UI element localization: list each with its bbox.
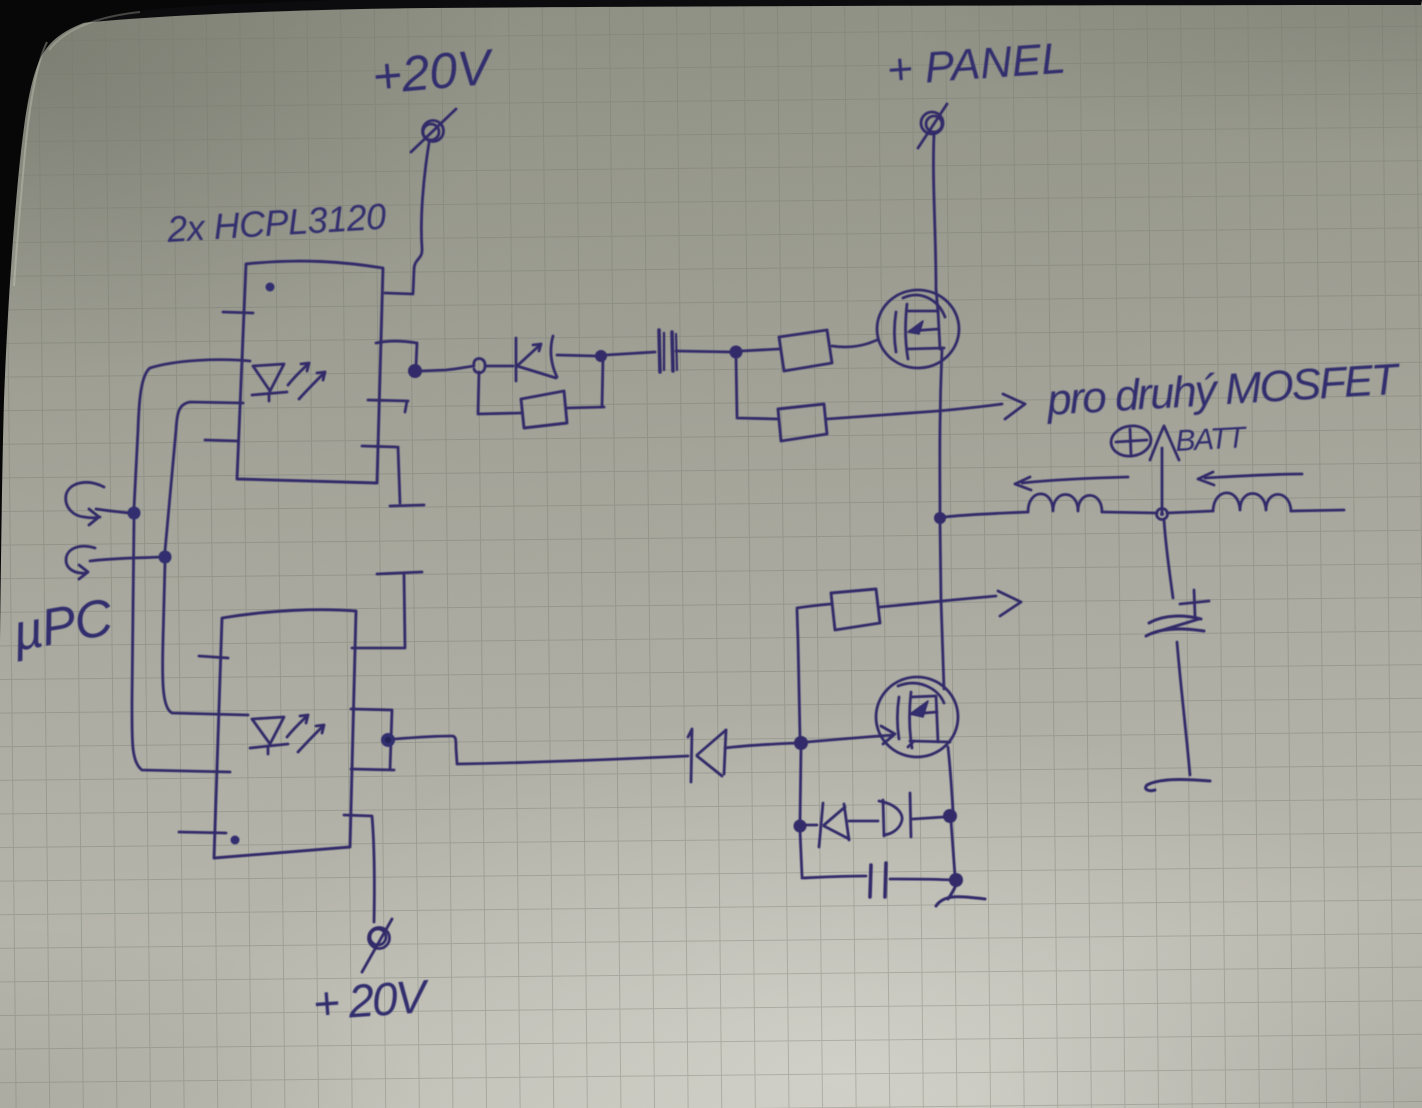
ground (right, below C3) xyxy=(1146,780,1210,791)
resistor R2 (lower branch from node E) xyxy=(736,358,1002,441)
wire: L1 to node L xyxy=(1102,512,1157,513)
wire: node G to diode D6 xyxy=(395,736,688,764)
LED inside U2 xyxy=(250,715,324,754)
node L (battery junction) xyxy=(1157,509,1168,520)
wire: node B to U1 cathode pin xyxy=(165,402,243,551)
wire: Q1 drain through to source xyxy=(936,289,938,312)
pin 1 dot U2 xyxy=(231,836,240,845)
node D xyxy=(595,350,607,362)
pin stub U1 left lower xyxy=(205,440,237,441)
wire: node C to diode D3 xyxy=(421,359,513,373)
capacitor C2 xyxy=(870,863,886,897)
wire: +20V terminal to U1 Vcc pin xyxy=(385,143,429,294)
diode D5 xyxy=(879,793,911,837)
terminal +20V top xyxy=(411,109,456,152)
node K (diode row left junction) xyxy=(794,820,807,833)
arrow input 1 from uPC xyxy=(66,482,130,525)
node G (U2 output junction) xyxy=(381,733,395,747)
terminal +PANEL xyxy=(918,104,947,148)
wire: node L down to capacitor C3 xyxy=(1164,520,1173,598)
wire: node K down to capacitor C2 xyxy=(800,831,866,878)
capacitor C1 xyxy=(659,330,677,372)
wire: D6 to node J xyxy=(725,743,797,748)
diode D6 xyxy=(688,729,726,782)
wire: node F to inductor L1 xyxy=(945,512,1028,517)
wire: U2 Vee pin to bottom terminal xyxy=(344,815,374,922)
svg-text:+ 20V: + 20V xyxy=(311,970,432,1030)
current arrow left xyxy=(1015,477,1128,490)
ground (bottom, at node I) xyxy=(936,885,985,906)
wire: node D to capacitor C1 xyxy=(606,352,655,355)
resistor R3 (upper branch from node J) xyxy=(797,589,996,737)
wire: C2 to node I xyxy=(890,879,951,880)
U1 Vee pin with T end xyxy=(362,446,424,506)
inductor L2 xyxy=(1213,493,1291,511)
terminal +20V bottom xyxy=(362,919,392,972)
wire: L2 to right xyxy=(1291,510,1344,511)
node F xyxy=(934,512,946,524)
svg-text:BATT: BATT xyxy=(1175,421,1249,458)
battery terminal circle xyxy=(1109,423,1179,460)
wire: node B to U2 anode pin xyxy=(163,563,248,715)
wire: C1 to node E xyxy=(676,351,731,352)
capacitor C3 (polarized) xyxy=(1146,590,1209,636)
capacitor plate to U2 Vcc xyxy=(352,572,422,648)
node C (U1 output junction) xyxy=(408,364,422,378)
wire: D3 to node D xyxy=(557,355,596,356)
photo black edge top-left corner xyxy=(0,0,335,640)
wire: node F down to Q2 drain xyxy=(940,523,944,689)
transistor Q1 (upper MOSFET) xyxy=(877,290,959,368)
photo black edge top xyxy=(0,0,1422,30)
pin stub U1 top-left xyxy=(223,312,253,313)
arrow input 2 from uPC xyxy=(66,546,162,579)
node H (source/diode junction) xyxy=(943,809,957,823)
wire: Q2 source to node H xyxy=(948,747,953,812)
arrow: upper gate drive output xyxy=(1003,394,1025,419)
paper edge highlight xyxy=(14,42,47,286)
optocoupler U1 (upper HCPL3120 body) xyxy=(237,261,383,483)
wire: node A to U2 cathode pin xyxy=(132,519,230,772)
node I (bottom junction) xyxy=(949,873,963,887)
optocoupler U2 (lower HCPL3120 body) xyxy=(214,610,356,858)
pin stub U2 left lower xyxy=(179,832,226,833)
diode D3 xyxy=(516,336,557,381)
wire: node J down to node K xyxy=(800,749,801,822)
wire: Q1 source down to node F xyxy=(940,350,942,515)
U2 output pins to node G xyxy=(351,709,394,770)
resistor R2a (parallel with D3) xyxy=(478,357,604,428)
wire: D5 to node H xyxy=(913,817,944,819)
wire: D4 to D5 xyxy=(849,820,878,823)
pin stub U1 right mid xyxy=(368,400,408,412)
pin 1 dot U1 xyxy=(266,283,275,292)
wire: node J to Q2 gate with arrow xyxy=(807,726,895,744)
current arrow right xyxy=(1198,472,1302,485)
svg-text:+20V: +20V xyxy=(370,38,497,104)
resistor R1 (gate resistor Q1) xyxy=(741,330,877,371)
wire: C3 to ground xyxy=(1177,642,1190,775)
arrow: lower gate drive output xyxy=(998,591,1021,616)
inductor L1 xyxy=(1028,494,1102,512)
node E xyxy=(730,346,743,359)
pin stub U2 top-left xyxy=(199,656,228,658)
node B xyxy=(159,551,172,564)
node J (Q2 gate junction) xyxy=(794,736,808,750)
LED inside U1 xyxy=(252,363,325,401)
wire: node H to node I xyxy=(951,821,955,876)
wire: node A to U1 anode pin xyxy=(134,360,250,508)
node A xyxy=(128,507,141,520)
wire: battery terminal to node L xyxy=(1161,448,1164,513)
wire: +PANEL terminal to Q1 drain xyxy=(933,135,936,289)
transistor Q2 (lower MOSFET) xyxy=(876,677,958,757)
wire: node L to inductor L2 xyxy=(1167,511,1213,513)
U1 output pin to node C xyxy=(376,341,417,366)
diode D4 xyxy=(806,803,849,847)
